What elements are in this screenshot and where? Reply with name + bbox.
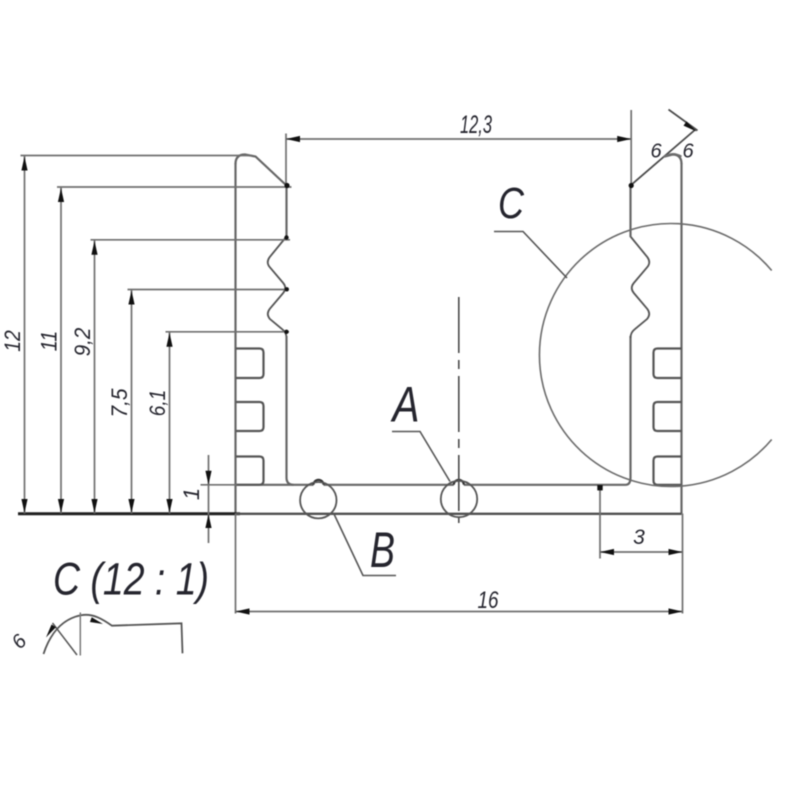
junction dot zigzag mid left: [285, 287, 289, 291]
extension line left (16): [235, 514, 237, 614]
svg-text:C: C: [498, 179, 525, 228]
left wall inner line upper: [285, 185, 287, 237]
dimension line 1: [208, 455, 210, 543]
svg-text:12: 12: [0, 330, 25, 352]
junction dot chamfer right: [629, 183, 634, 188]
right tooth 3: [654, 457, 682, 485]
extension line (9,2): [91, 239, 291, 241]
junction dot zigzag bottom left: [284, 330, 288, 334]
right wall inner lower with floor fillet: [626, 336, 631, 485]
balloon circle B: [300, 482, 336, 518]
dimension baseline (thick): [18, 512, 240, 515]
extension line right (12,3): [630, 110, 632, 185]
right wall top corner: [664, 155, 682, 165]
junction dot chamfer left: [284, 183, 289, 188]
arrowheads 12,3: [286, 136, 300, 142]
right tooth 2: [654, 402, 682, 431]
left tooth 1: [236, 349, 264, 379]
dimension line 7,5: [131, 290, 133, 514]
extension line top (12): [21, 155, 253, 157]
left wall inner line lower with floor fillet: [287, 336, 294, 485]
dimension line 16: [236, 611, 683, 613]
left tooth 2: [236, 402, 264, 431]
detail view arrowhead left: [46, 625, 56, 638]
dimension line 11: [60, 187, 62, 514]
dimension line 3: [600, 551, 683, 553]
extension line right (16 and 3): [682, 514, 684, 614]
bump A on floor: [454, 480, 464, 485]
svg-text:1: 1: [179, 488, 204, 500]
arrowheads 12: [21, 157, 27, 171]
right wall chamfer with extension line D1: [631, 129, 697, 186]
detail view vertical extension: [79, 613, 81, 656]
leader for label B: [334, 514, 396, 576]
arrowheads 7,5: [128, 291, 134, 305]
arrowheads 9,2: [91, 241, 97, 255]
dimension line 12,3: [286, 138, 631, 140]
dimension line 9,2: [94, 240, 96, 514]
svg-text:6: 6: [8, 630, 32, 654]
svg-text:16: 16: [478, 587, 500, 614]
svg-text:6: 6: [682, 141, 694, 163]
svg-text:6,1: 6,1: [145, 390, 170, 417]
arrowheads 11: [58, 188, 64, 202]
leader for label A: [392, 432, 450, 482]
detail view arrowhead right: [90, 617, 103, 624]
dimension line 6,1: [169, 332, 171, 514]
svg-text:B: B: [370, 522, 395, 578]
leader for label C: [494, 232, 567, 279]
balloon circle A: [441, 481, 477, 517]
extension line (11): [57, 186, 292, 188]
arrowheads 16: [236, 608, 250, 614]
junction dot zigzag top left: [284, 235, 288, 239]
right wall inner line upper: [629, 185, 631, 237]
arrowhead chamfer leader: [684, 121, 697, 131]
dimension line 12: [24, 156, 26, 514]
bump B on floor: [314, 480, 324, 485]
svg-text:A: A: [390, 377, 419, 433]
right wall zigzag: [631, 237, 650, 339]
leader line D2: [669, 110, 698, 131]
origin dot for 3: [597, 485, 602, 490]
arrowheads 6,1: [166, 333, 172, 347]
left wall top corner and chamfer: [236, 155, 287, 186]
bottom outer surface: [236, 513, 682, 515]
angle arc (top right): [664, 154, 682, 157]
svg-text:12,3: 12,3: [460, 111, 492, 139]
svg-text:11: 11: [37, 331, 62, 352]
svg-text:C (12 : 1): C (12 : 1): [53, 554, 209, 605]
extension line (7,5): [128, 289, 288, 291]
centerline axis A: [458, 297, 460, 523]
svg-text:6: 6: [650, 141, 662, 163]
left wall outer line: [234, 163, 236, 514]
detail view profile curve: [44, 615, 183, 654]
right wall outer line: [680, 163, 682, 514]
extension line left (3): [599, 489, 601, 559]
right tooth 1: [654, 349, 682, 379]
arrowheads 1 (outside): [205, 471, 211, 485]
extension line (6,1): [166, 331, 290, 333]
left tooth 3: [236, 457, 264, 485]
extension stub for 1: [201, 484, 238, 486]
floor inner surface: [236, 484, 626, 486]
extension line left (12,3): [285, 134, 287, 184]
svg-text:9,2: 9,2: [70, 328, 95, 357]
left wall zigzag: [268, 237, 287, 339]
detail circle C: [539, 224, 771, 487]
detail view diagonal extension: [53, 623, 78, 655]
svg-text:7,5: 7,5: [107, 388, 132, 418]
svg-text:3: 3: [633, 526, 645, 549]
arrowheads 3: [600, 549, 614, 555]
